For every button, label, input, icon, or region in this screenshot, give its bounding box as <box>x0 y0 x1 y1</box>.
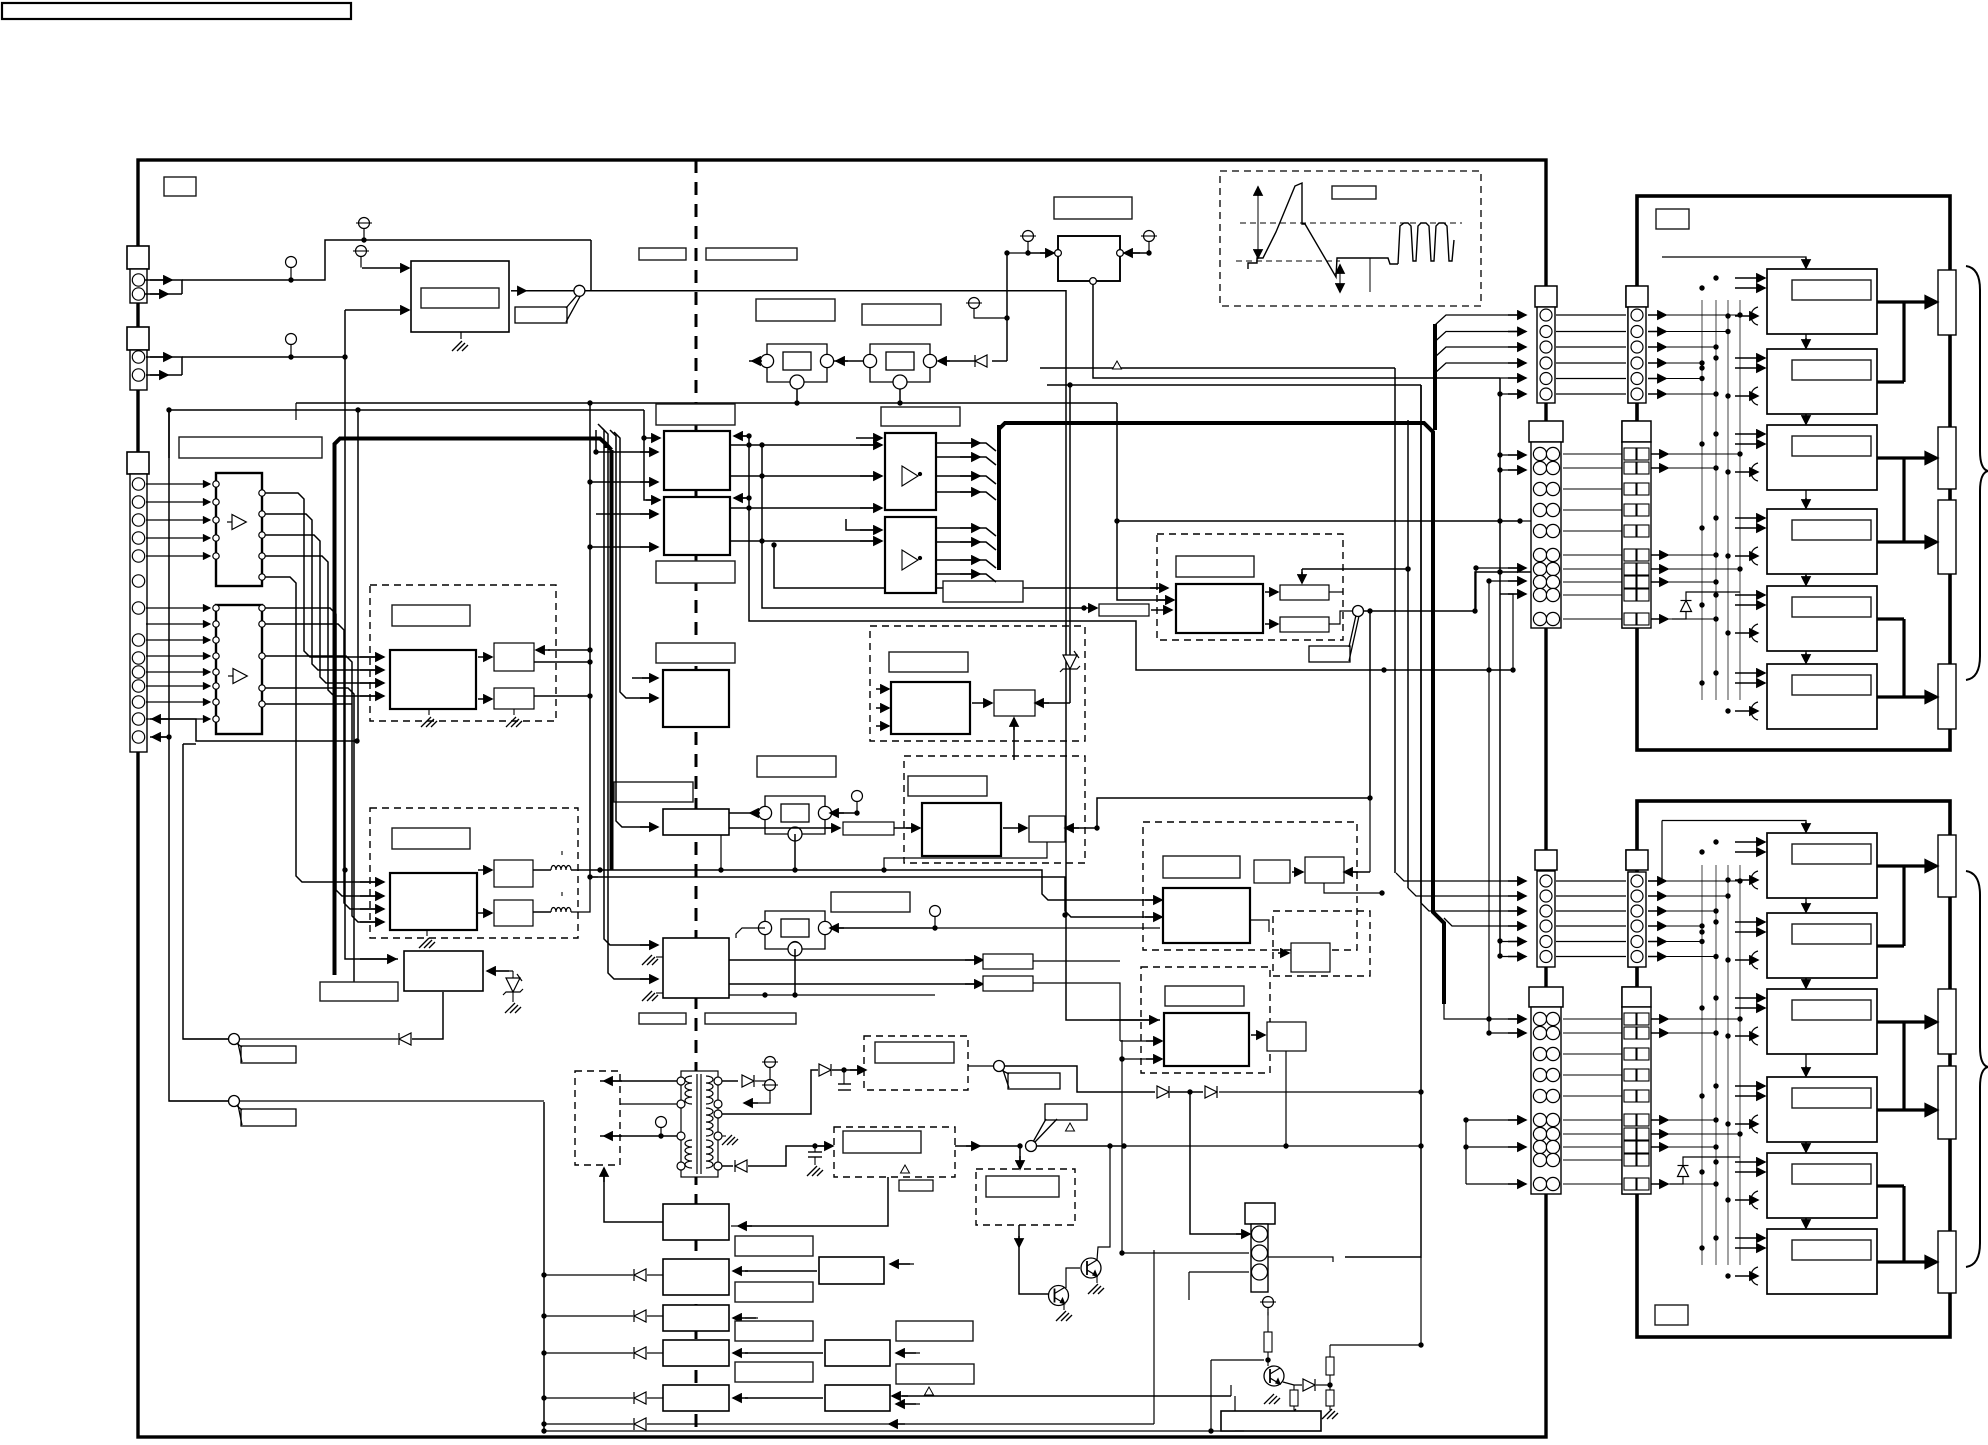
wire U221 inputs <box>876 688 889 690</box>
ground below Q3 <box>1264 1394 1280 1404</box>
connector J13 shell <box>1529 421 1563 442</box>
connector J11 shell <box>1535 286 1557 307</box>
J3 pin 11 <box>132 680 144 692</box>
connector J5 body <box>1251 1224 1268 1292</box>
wire rail x620 to U203 <box>614 432 656 698</box>
wire R401 to U402 <box>1151 609 1172 611</box>
diode D201 <box>975 355 987 367</box>
CRT panel R2 module 6 label <box>1792 1240 1871 1260</box>
top label box 2 <box>639 248 686 260</box>
wire PLL audio2 left to U205 <box>736 928 765 938</box>
wire U103 out4 stub <box>265 688 354 990</box>
J13 pin a2 <box>1533 461 1546 474</box>
wire U205 bottom output down <box>412 992 443 1039</box>
connector J1 shell <box>127 246 149 269</box>
wire U222 out to sub <box>1003 827 1027 829</box>
wire T1 out 1114 to diode D502 path <box>722 1070 818 1114</box>
wire U202 out2 to U302 <box>730 540 880 542</box>
CRT panel R2 module 6 input arrows <box>1735 1237 1765 1239</box>
test point TP10 <box>656 1117 667 1137</box>
wire J13-J14 row links <box>1563 453 1622 455</box>
test point TP1 <box>286 257 297 280</box>
DB5 label <box>986 1176 1059 1197</box>
resistor R534 <box>1326 1390 1334 1406</box>
wire into U201 in2 <box>596 451 656 453</box>
wire J3 pin to U102 in2 <box>146 501 210 503</box>
connector J2 body <box>130 350 147 390</box>
wire delay gnd stem <box>513 709 515 715</box>
wire switch feed down <box>590 240 592 291</box>
ground below U101 <box>452 341 468 351</box>
wire J1 to video input line <box>145 280 182 294</box>
wire U402 to sub2 <box>1265 623 1278 625</box>
wire net D4 row <box>544 1397 633 1399</box>
wire y1092 continue right <box>1262 1091 1421 1093</box>
wire rail x1122 <box>1121 1040 1123 1253</box>
J1 pin 2 <box>132 288 144 300</box>
label above U203 <box>656 643 735 663</box>
dashed box RF converter 2 <box>1157 534 1343 640</box>
wire rail x1500 <box>1499 378 1501 956</box>
connector J12 pin 2 <box>1631 326 1643 338</box>
inductor L1 <box>551 866 571 871</box>
wire J3 pin to U103 in2 <box>146 623 210 625</box>
wire thick J14 to R1 bottom <box>1636 628 1639 748</box>
U103 output pin 2 <box>259 621 265 627</box>
label right of U302 <box>943 581 1023 602</box>
U103 output pin 5 <box>259 701 265 707</box>
CRT panel R1 module 5 chain down <box>1805 651 1807 661</box>
test point TP13 <box>1260 1297 1276 1316</box>
CRT panel R1 module 6 label <box>1792 675 1871 695</box>
wire U205 gnd stub 2 <box>656 992 663 994</box>
T1 right pin <box>714 1110 722 1118</box>
label above PLL2 <box>862 304 941 325</box>
connector J12 body <box>1628 307 1646 403</box>
CRT panel R2 module 4 chain down <box>1805 1142 1807 1150</box>
waveform inset dashed box <box>1220 171 1481 306</box>
wire J16 row1 to R2 entry <box>1648 880 1662 882</box>
wire U212 gnd stem <box>426 930 428 936</box>
U102 input pin 3 <box>213 517 219 523</box>
LED D520 <box>503 974 523 995</box>
test point TP3 <box>286 334 297 357</box>
wire bottom bus to frame corner <box>1235 1430 1244 1432</box>
J5 pin 1 <box>1252 1226 1268 1242</box>
dashed box audio MPX <box>904 756 1085 863</box>
connector J12 shell <box>1626 286 1648 307</box>
U103 input pin 5 <box>213 669 219 675</box>
RF sub block 2 <box>1280 617 1329 632</box>
wire J15-J16 row links <box>1556 880 1626 882</box>
wire y670 bend down <box>1500 594 1513 670</box>
wire J13 row feeds upper <box>1500 454 1524 456</box>
T1 primary winding 1 <box>685 1076 692 1104</box>
connector J16 body <box>1628 872 1646 967</box>
sound block B5 <box>663 1385 729 1411</box>
connector J18 shell <box>1622 987 1651 1007</box>
wire U221 to sub block <box>972 702 992 704</box>
delay block 1 <box>494 643 534 671</box>
wire U211 to delay2 <box>478 698 492 700</box>
connector J12 pin 1 <box>1631 309 1643 321</box>
wire base feed to Q3 <box>1211 1359 1264 1361</box>
wire bus y409 to center <box>169 409 644 411</box>
wire y368 rail <box>1040 367 1395 369</box>
wire J17 feeds <box>1489 1018 1524 1020</box>
label above U301 <box>881 407 960 426</box>
J3 pin 1 <box>132 478 144 490</box>
wire net D3 row <box>544 1352 633 1354</box>
connector J16 pin 5 <box>1631 936 1643 948</box>
resistor R531 <box>1264 1332 1272 1352</box>
waveform dim arrow v2 <box>1339 264 1341 292</box>
wire Q2 emitter <box>1096 1276 1098 1283</box>
wire D601 to J14 <box>1672 612 1686 619</box>
CRT panel R2 module 1 label <box>1792 844 1871 864</box>
wire feedback into U202 right <box>736 497 749 499</box>
wire rail x1235 <box>1234 1396 1236 1431</box>
CRT panel R1 output bold chain <box>1877 302 1904 697</box>
connector J12 body <box>1628 307 1646 403</box>
waveform level line 1 <box>1240 222 1462 224</box>
CRT panel R1 output tab 3 <box>1938 500 1956 574</box>
J17 pin a8 <box>1533 1140 1546 1153</box>
T1 right pin <box>714 1077 722 1085</box>
wire y572 to connector <box>1500 571 1531 573</box>
dashed box sub power DB8 <box>1273 911 1370 976</box>
wire input2 into U431 <box>1120 1040 1160 1042</box>
wire arrow up into sub block <box>1013 718 1015 760</box>
wire U102 out3 to demod1 in3 <box>265 535 384 683</box>
wire J3 pin to U103 in1 <box>146 607 210 609</box>
wire DB7 sub1 to sub2 <box>1292 871 1303 873</box>
op-amp symbol in U301 <box>902 466 922 486</box>
wire J3 pin to U103 in7 <box>146 701 210 703</box>
CRT panel R2 module 6 box <box>1767 1229 1877 1294</box>
T1 right pin <box>714 1132 722 1140</box>
delay block 2 <box>494 688 534 709</box>
wire B3 right stub <box>745 1317 758 1319</box>
main board frame <box>138 160 1546 1437</box>
line amp U431 <box>1164 1013 1249 1066</box>
wire rail x762 <box>762 445 1084 608</box>
wire T1 out 1166 diode D503 <box>722 1165 733 1167</box>
MPX sub block <box>1029 816 1065 842</box>
wire MPX sub feedback <box>1067 827 1097 829</box>
trap block 1 <box>983 954 1033 969</box>
J17 pin b9 <box>1546 1153 1559 1166</box>
capacitor C501 <box>838 1083 851 1085</box>
CRT panel R2 module 1 box <box>1767 833 1877 898</box>
J17 pin b2 <box>1546 1026 1559 1039</box>
frame reference label <box>164 177 196 196</box>
wire TP6 into U401 right <box>1133 250 1149 253</box>
video demod U212 <box>390 873 477 930</box>
wire rail x1421 lower <box>1345 385 1421 1257</box>
connector J15 body <box>1537 871 1555 967</box>
CRT panel R2 right brace <box>1966 871 1988 1267</box>
DB7 sub2 <box>1305 857 1344 883</box>
connector J12 pin 6 <box>1631 388 1643 400</box>
CRT panel R2 module 4 box <box>1767 1077 1877 1142</box>
connector J18 body <box>1622 1007 1651 1194</box>
diode <box>1681 601 1692 612</box>
wire D504 junction down to connector <box>1190 1092 1248 1234</box>
wire U205 out2 <box>729 983 981 985</box>
U102 input pin 2 <box>213 499 219 505</box>
U102 output pin 3 <box>259 532 265 538</box>
wire net D5 row <box>544 1423 633 1425</box>
CRT panel R1 module 5 input arrows <box>1735 594 1765 596</box>
CRT panel R2 module 5 input arrows <box>1735 1161 1765 1163</box>
CRT panel R1 module 5 box <box>1767 586 1877 651</box>
J13 pin a6 <box>1533 548 1546 561</box>
wire J13 row feeds mid <box>1476 567 1524 569</box>
video demod U211 <box>390 650 476 709</box>
CRT panel R2 module 4 left bracket <box>1751 1115 1758 1133</box>
filter block 2 <box>494 900 533 926</box>
trap block 2 <box>983 976 1033 991</box>
ground below U211 <box>421 717 437 727</box>
wire U302 out1 <box>936 528 996 536</box>
wire TP5 into U401 <box>1028 250 1046 253</box>
wire return into J3 pin13 <box>150 719 357 741</box>
J17 pin a5 <box>1533 1089 1546 1102</box>
label right of B4 <box>896 1364 974 1384</box>
triangle marker 4 <box>925 1387 934 1395</box>
filter block 1 <box>494 860 533 887</box>
wire J14 outputs <box>1651 453 1668 455</box>
CRT panel R2 module 1 input arrows <box>1735 841 1765 843</box>
MPX decoder U222 <box>922 803 1001 856</box>
demod1 label <box>392 605 470 626</box>
op-amp symbol U103 <box>228 669 247 684</box>
J17 pin a3 <box>1533 1047 1546 1060</box>
connector J5 shell <box>1245 1203 1275 1224</box>
wire R534 gnd <box>1329 1406 1331 1410</box>
J3 pin 2 <box>132 496 144 508</box>
J17 pin b10 <box>1546 1177 1559 1190</box>
J17 pin a1 <box>1533 1012 1546 1025</box>
dashed box audio out 2 <box>834 1127 955 1177</box>
sound block B1 <box>663 1204 729 1240</box>
wire J18 outputs <box>1651 1018 1668 1020</box>
CRT panel R1 module 4 chain down <box>1805 574 1807 583</box>
test point TP9 <box>930 906 941 926</box>
CRT panel R1 bus rails <box>1702 300 1740 700</box>
triangle marker 2 <box>901 1165 910 1173</box>
J13 pin b8 <box>1546 575 1559 588</box>
wire rail x604 to U205 <box>598 424 656 945</box>
CRT panel R2 module 1 left bracket <box>1751 871 1758 889</box>
J17 pin b4 <box>1546 1068 1559 1081</box>
J3 pin 6 <box>132 575 144 587</box>
RF modulator U401 <box>1058 236 1120 281</box>
U103 input pin 2 <box>213 621 219 627</box>
wire U103 out3 to demod2 in4 <box>265 656 384 922</box>
wire drop x358 to DB-L1 area <box>357 410 359 741</box>
J17 pin b8 <box>1546 1140 1559 1153</box>
wire bus y403 long <box>296 402 1117 404</box>
wire y385 rail <box>1047 384 1421 386</box>
wire cap stem 2 <box>814 1146 816 1152</box>
wire LED stem <box>512 971 514 978</box>
ground below C502 <box>807 1166 823 1176</box>
DB6 sub block <box>1267 1022 1306 1051</box>
wire arrow down into sub1 <box>1301 569 1303 583</box>
wire U212 to filter2 <box>478 912 492 914</box>
connector J15 pin 6 <box>1540 951 1552 963</box>
CRT panel R1 module 3 label <box>1792 436 1871 456</box>
bold video path P1 <box>335 439 607 976</box>
CRT panel R1 module 2 left bracket <box>1751 387 1758 405</box>
left block label <box>179 437 322 458</box>
wire U102 out2 to demod1 in2 <box>265 514 384 670</box>
diode D501 <box>742 1075 754 1087</box>
wire rail x596 <box>595 430 597 452</box>
PLL audio 1 <box>763 796 827 834</box>
T1 left pin <box>677 1077 685 1085</box>
U102 output pin 1 <box>259 490 265 496</box>
J2 pin 1 <box>132 351 144 363</box>
wire R201 to FM demod <box>894 827 916 829</box>
wire PLL2 right feed with diode <box>992 360 1007 362</box>
wire SW5 down to DB5 <box>1019 1146 1021 1168</box>
connector J11 pin 4 <box>1540 357 1552 369</box>
CRT panel R2 module 5 chain down <box>1805 1218 1807 1226</box>
wire J2 to tuner line <box>146 357 182 375</box>
dashed box audio FM demod <box>870 626 1085 741</box>
MPX label <box>908 776 987 796</box>
wire bundle rails into J15 <box>1396 873 1524 881</box>
wire rail x544 <box>543 1102 545 1431</box>
wire J17-J18 links <box>1563 1018 1622 1020</box>
J17 pin b3 <box>1546 1047 1559 1060</box>
wire R532 stem <box>1293 1385 1295 1390</box>
DB7 sub1 <box>1254 860 1290 883</box>
DB8 block <box>1291 943 1330 972</box>
J3 pin 14 <box>132 731 144 743</box>
CRT panel R2 entry wire <box>1662 821 1806 831</box>
wire audio out1 to SW4 <box>968 1065 993 1067</box>
diode D511 <box>634 1269 646 1281</box>
wire y1345 sense to rail <box>1420 1257 1422 1345</box>
wire J3 pin to U103 in4 <box>146 655 210 657</box>
label above switch IC <box>656 404 735 425</box>
switch SW3 <box>1309 606 1364 663</box>
wire SW7 left rail <box>169 1100 228 1102</box>
ground left of U205 lower <box>642 991 658 1001</box>
wire feed from rail x1408 <box>1302 568 1408 570</box>
wire U302 extra input <box>846 519 880 530</box>
connector J16 shell <box>1626 850 1648 870</box>
wire U402 to sub1 <box>1265 591 1278 593</box>
diode D512 <box>634 1310 646 1322</box>
PLL audio 2 <box>763 911 827 949</box>
CRT panel R1 frame <box>1637 196 1950 750</box>
connector J15 pin 3 <box>1540 905 1552 917</box>
wire PLL audio1 bottom <box>794 834 796 870</box>
dashed box left sound out <box>575 1071 620 1165</box>
connector J11 pin 3 <box>1540 341 1552 353</box>
wire input3 into U431 <box>1122 1058 1160 1060</box>
wire thick link J12 down <box>1636 403 1639 421</box>
wire PLL audio2 right feed <box>832 927 935 929</box>
label below B2 <box>735 1282 813 1302</box>
wire LED gnd stem <box>512 992 514 1002</box>
J2 pin 2 <box>132 369 144 381</box>
wire SW5 out right <box>1037 1145 1124 1147</box>
connector J13 body <box>1531 442 1561 628</box>
wire DB5 down to Q1 <box>1019 1225 1048 1294</box>
wire T1 to sound-out box arrow2 <box>600 1135 677 1137</box>
J17 pin a9 <box>1533 1153 1546 1166</box>
audio out2 label <box>843 1131 921 1153</box>
wire PLL1-PLL2 link <box>834 360 863 362</box>
wire U103 out2 to demod2 in3 <box>265 624 384 909</box>
wire MPX feedback path from switch SW3 <box>1097 611 1370 828</box>
ground right of T1 <box>722 1135 738 1145</box>
wire R531 to Q3 <box>1267 1352 1269 1366</box>
CRT panel R2 output tab 3 <box>1938 1066 1956 1139</box>
dashed box video demod 1 <box>370 585 556 721</box>
FM demod U221 <box>891 682 970 734</box>
wire U211 to delay1 <box>478 656 492 658</box>
U102 input pin 1 <box>213 481 219 487</box>
wire x644 feed to center boxes <box>644 410 656 500</box>
wire sub2 to switch SW3 <box>1329 611 1352 624</box>
connector J12 pin 1 <box>1631 309 1643 321</box>
sound block B4 <box>663 1340 729 1366</box>
wire rail x169 (AGC return) <box>169 410 228 1101</box>
J17 pin b6 <box>1546 1113 1559 1126</box>
wire U301 out2 <box>936 457 996 465</box>
CRT panel R1 module 6 left bracket <box>1751 702 1758 720</box>
wire rail x1476 <box>1475 568 1477 611</box>
dashed box audio out 1 <box>864 1036 968 1090</box>
junction J2 line <box>342 354 347 359</box>
J13 pin a9 <box>1533 588 1546 601</box>
connector J16 shell <box>1626 850 1648 870</box>
block U205 (box E) <box>663 938 729 998</box>
U401 right pin <box>1117 250 1124 257</box>
resistor R532 <box>1290 1390 1298 1406</box>
transformer T1 frame <box>681 1071 718 1177</box>
test point TP11 <box>762 1057 778 1081</box>
connector J11 pin 6 <box>1540 388 1552 400</box>
wire thick J16 down <box>1636 967 1639 987</box>
wire U205 gnd stub <box>656 956 663 958</box>
U102 output pin 4 <box>259 553 265 559</box>
wire P5 to B5 <box>745 1397 823 1399</box>
waveform dim arrow v1 <box>1257 186 1259 259</box>
label below B3 <box>735 1321 813 1341</box>
wire T1 line 1104 <box>620 1103 677 1105</box>
connector J12 pin 4 <box>1631 357 1643 369</box>
CRT panel R2 output arrows <box>1904 861 1936 1267</box>
wire U301 out3 <box>936 476 996 484</box>
IF block U203 (box C) <box>663 670 729 727</box>
J1 pin 1 <box>132 274 144 286</box>
J18 contact grid redraw <box>1624 1013 1649 1190</box>
wire input arrow into U101 <box>362 267 409 269</box>
diode D503 <box>735 1160 747 1172</box>
switch IC U201 (box A) <box>664 431 730 490</box>
wire U501 out right <box>1250 920 1269 932</box>
wire rail x1489 <box>1488 581 1490 670</box>
U103 input pin 3 <box>213 637 219 643</box>
